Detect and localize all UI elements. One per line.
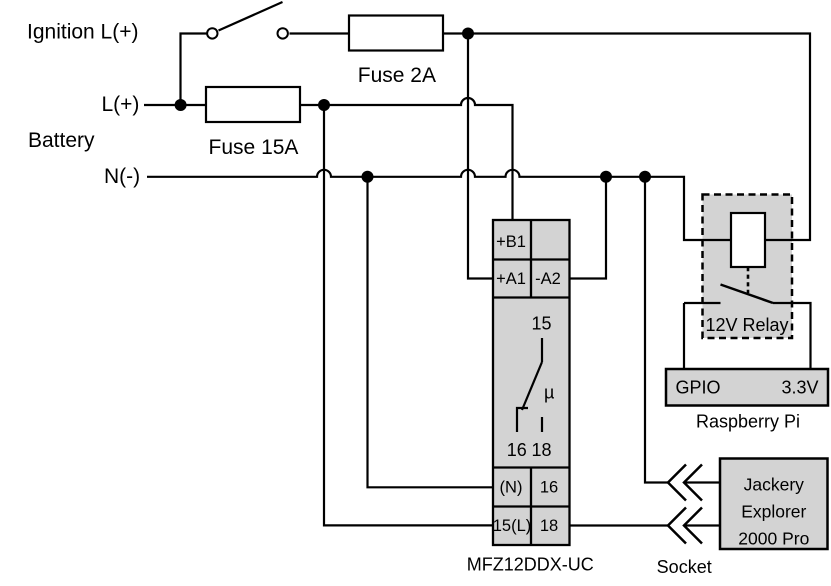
svg-text:3.3V: 3.3V (781, 377, 818, 397)
svg-text:Fuse 15A: Fuse 15A (209, 136, 299, 159)
svg-text:Socket: Socket (657, 557, 712, 577)
svg-text:18: 18 (531, 440, 551, 460)
svg-text:L(+): L(+) (102, 93, 140, 116)
svg-text:Battery: Battery (28, 129, 95, 152)
svg-text:µ: µ (544, 383, 554, 403)
svg-text:12V Relay: 12V Relay (706, 315, 789, 335)
svg-text:N(-): N(-) (104, 165, 140, 188)
svg-text:15(L): 15(L) (493, 517, 532, 535)
svg-text:16: 16 (540, 479, 558, 497)
svg-text:15: 15 (531, 314, 551, 334)
svg-text:Explorer: Explorer (741, 501, 806, 521)
svg-text:2000 Pro: 2000 Pro (738, 528, 809, 548)
svg-text:-A2: -A2 (535, 270, 561, 288)
svg-text:GPIO: GPIO (676, 377, 721, 397)
svg-text:+B1: +B1 (496, 233, 526, 251)
svg-text:MFZ12DDX-UC: MFZ12DDX-UC (467, 555, 594, 575)
svg-text:Jackery: Jackery (744, 474, 805, 494)
svg-text:16: 16 (507, 440, 527, 460)
svg-text:Fuse 2A: Fuse 2A (358, 64, 436, 87)
svg-text:Ignition L(+): Ignition L(+) (27, 21, 138, 44)
svg-text:Raspberry Pi: Raspberry Pi (696, 412, 800, 432)
svg-text:18: 18 (540, 517, 558, 535)
svg-text:+A1: +A1 (496, 270, 526, 288)
svg-text:(N): (N) (500, 479, 523, 497)
